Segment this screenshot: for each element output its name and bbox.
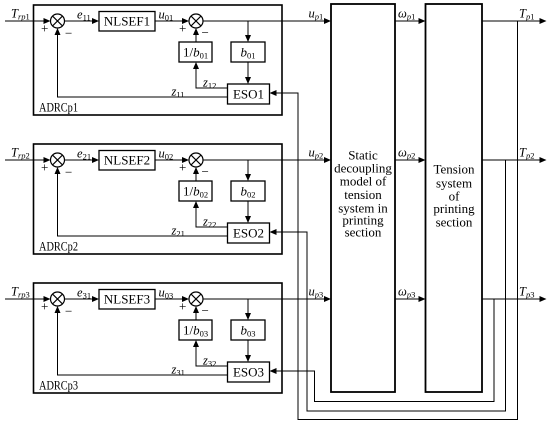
wire omega p3 <box>395 296 426 302</box>
wire feedback Tp1 to ESO1 <box>270 21 518 420</box>
wire u02 <box>155 157 189 163</box>
svg-text:u01: u01 <box>159 8 174 23</box>
svg-text:z21: z21 <box>171 224 185 239</box>
wire e31 <box>65 296 100 302</box>
summing junction 3-1 <box>51 292 65 306</box>
svg-text:z11: z11 <box>171 85 185 100</box>
wire z32 from ESO3 to 1/b03 <box>193 340 228 366</box>
block ESO3 <box>228 362 270 382</box>
svg-text:section: section <box>436 215 473 230</box>
svg-text:up3: up3 <box>309 285 324 300</box>
svg-text:Tp2: Tp2 <box>519 146 534 161</box>
svg-text:−: − <box>202 303 209 318</box>
wire branch down to b02 <box>245 160 251 181</box>
svg-text:section: section <box>345 225 382 240</box>
wire feedback Tp2 to ESO2 <box>270 160 506 411</box>
ADRCp2 outer box <box>34 144 283 254</box>
svg-text:1/b03: 1/b03 <box>183 323 208 339</box>
summing junction 1-1 <box>51 14 65 28</box>
wire Tp2 output <box>482 157 547 163</box>
block NLSEF3 <box>99 290 155 310</box>
svg-text:+: + <box>179 159 186 174</box>
wire 1/b03 up to junction 3-2 <box>193 306 199 320</box>
svg-text:e31: e31 <box>77 286 91 301</box>
svg-text:e21: e21 <box>77 147 91 162</box>
svg-text:ESO2: ESO2 <box>233 226 264 241</box>
block 1/b01 <box>179 42 212 62</box>
block static decoupling model <box>331 4 395 392</box>
summing junction 3-2 <box>189 292 203 306</box>
wire b03 to ESO3 <box>245 340 251 362</box>
svg-text:ωp2: ωp2 <box>398 146 415 161</box>
svg-text:e11: e11 <box>77 8 91 23</box>
tension system block text <box>433 162 475 230</box>
svg-text:ESO3: ESO3 <box>233 365 264 380</box>
wire e11 <box>65 18 100 24</box>
wire b01 to ESO1 <box>245 62 251 84</box>
wire 1/b01 up to junction 1-2 <box>193 28 199 42</box>
wire up2 from junction to static decoupling block <box>203 157 331 163</box>
svg-text:+: + <box>41 159 48 174</box>
wire Tp3 output <box>482 296 547 302</box>
svg-text:ωp1: ωp1 <box>398 7 415 22</box>
block 1/b02 <box>179 181 212 201</box>
svg-text:−: − <box>202 164 209 179</box>
wire z11 from ESO1 to junction 1-1 <box>55 28 228 97</box>
block b01 <box>231 42 265 62</box>
summing junction 2-1 <box>51 153 65 167</box>
wire 1/b02 up to junction 2-2 <box>193 167 199 181</box>
wire up1 from junction to static decoupling block <box>203 18 331 24</box>
svg-text:ADRCp2: ADRCp2 <box>39 239 78 254</box>
ADRCp3 outer box <box>34 283 283 393</box>
wire b02 to ESO2 <box>245 201 251 223</box>
wire feedback Tp3 to ESO3 <box>270 299 495 402</box>
wire e21 <box>65 157 100 163</box>
svg-text:1/b01: 1/b01 <box>183 45 208 61</box>
block ESO1 <box>228 84 270 104</box>
svg-text:−: − <box>65 26 72 41</box>
svg-text:ESO1: ESO1 <box>233 87 264 102</box>
block ESO2 <box>228 223 270 243</box>
block b03 <box>231 320 265 340</box>
svg-text:Trp3: Trp3 <box>11 285 30 300</box>
svg-text:ADRCp3: ADRCp3 <box>39 378 78 393</box>
svg-text:z12: z12 <box>202 76 216 91</box>
wire branch down to b03 <box>245 299 251 320</box>
svg-text:+: + <box>179 298 186 313</box>
block NLSEF1 <box>99 12 155 32</box>
svg-text:b03: b03 <box>241 323 256 339</box>
wire input Trp1 <box>5 18 51 24</box>
svg-text:ωp3: ωp3 <box>398 285 415 300</box>
ADRCp1 outer box <box>34 5 283 115</box>
svg-text:−: − <box>65 165 72 180</box>
wire z31 from ESO3 to junction 3-1 <box>55 306 228 375</box>
svg-text:Tp1: Tp1 <box>519 7 534 22</box>
static decoupling block text <box>334 148 392 240</box>
svg-text:NLSEF2: NLSEF2 <box>104 153 150 168</box>
wire u03 <box>155 296 189 302</box>
block tension system <box>426 4 483 392</box>
wire z22 from ESO2 to 1/b02 <box>193 201 228 227</box>
svg-text:−: − <box>202 25 209 40</box>
svg-text:ADRCp1: ADRCp1 <box>39 100 78 115</box>
wire z21 from ESO2 to junction 2-1 <box>55 167 228 236</box>
wire omega p2 <box>395 157 426 163</box>
block 1/b03 <box>179 320 212 340</box>
svg-text:Tp3: Tp3 <box>519 285 534 300</box>
block b02 <box>231 181 265 201</box>
summing junction 2-2 <box>189 153 203 167</box>
svg-text:+: + <box>41 20 48 35</box>
svg-text:+: + <box>41 298 48 313</box>
wire up3 from junction to static decoupling block <box>203 296 331 302</box>
svg-text:Trp2: Trp2 <box>11 146 30 161</box>
svg-text:NLSEF3: NLSEF3 <box>104 292 150 307</box>
svg-text:NLSEF1: NLSEF1 <box>104 14 150 29</box>
svg-text:b02: b02 <box>241 184 256 200</box>
svg-text:Tension: Tension <box>434 162 475 177</box>
svg-text:b01: b01 <box>241 45 256 61</box>
svg-text:−: − <box>65 304 72 319</box>
svg-text:u02: u02 <box>159 147 174 162</box>
wire branch down to b01 <box>245 21 251 42</box>
wire z12 from ESO1 to 1/b01 <box>193 62 228 88</box>
svg-text:up1: up1 <box>309 7 324 22</box>
block NLSEF2 <box>99 151 155 171</box>
svg-text:z22: z22 <box>202 215 216 230</box>
wire input Trp2 <box>5 157 51 163</box>
svg-text:1/b02: 1/b02 <box>183 184 208 200</box>
wire u01 <box>155 18 189 24</box>
svg-text:Trp1: Trp1 <box>11 7 30 22</box>
svg-text:z32: z32 <box>202 354 216 369</box>
summing junction 1-2 <box>189 14 203 28</box>
svg-text:+: + <box>179 20 186 35</box>
svg-text:u03: u03 <box>159 286 174 301</box>
svg-text:z31: z31 <box>171 363 185 378</box>
wire input Trp3 <box>5 296 51 302</box>
wire omega p1 <box>395 18 426 24</box>
svg-text:up2: up2 <box>309 146 324 161</box>
wire Tp1 output <box>482 18 547 24</box>
